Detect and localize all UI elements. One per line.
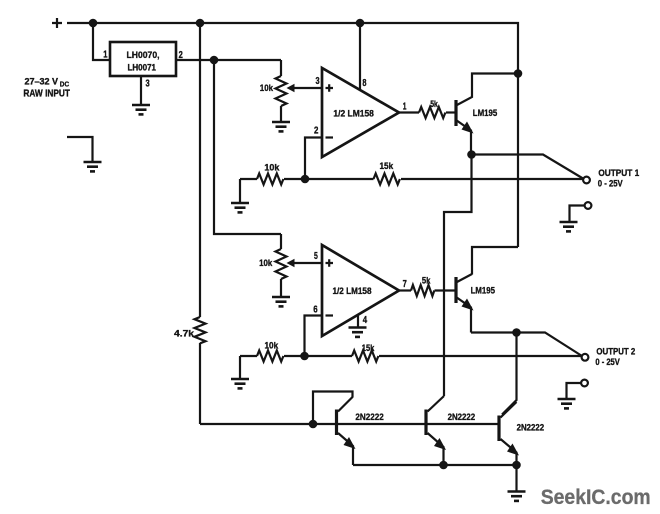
junction row1 inverting node xyxy=(301,175,310,184)
ground chassis xyxy=(84,162,102,171)
svg-text:1/2 LM158: 1/2 LM158 xyxy=(333,108,374,118)
ground feedback row1 stub xyxy=(239,179,241,203)
resistor R6 15k xyxy=(374,174,400,185)
op-amp U2 minus sign xyxy=(326,136,334,138)
terminal output1 xyxy=(583,177,590,184)
terminal output2 xyxy=(582,354,589,361)
wire Q1 emitter down to mirror (jog) xyxy=(444,155,472,397)
wire 5k to Q1 base xyxy=(446,111,455,113)
wire Q1 emitter to output 1 (horizontal + diagonal) xyxy=(472,155,584,179)
wire left rail upper (to 4.7k) xyxy=(199,23,201,317)
ground emitter rail xyxy=(508,492,526,501)
ground pot R2 xyxy=(272,297,290,306)
svg-text:27–32 V: 27–32 V xyxy=(25,77,59,87)
junction emitter rail / Q5 / ground xyxy=(512,461,521,470)
wire row1 mid xyxy=(284,178,374,180)
op-amp U2 1/2 LM158 triangle xyxy=(322,68,399,157)
transistor Q1 LM195 base bar xyxy=(454,100,457,126)
junction top rail at 4.7k branch xyxy=(196,19,205,28)
junction emitter rail / Q4 xyxy=(439,461,448,470)
transistor Q5 2N2222 base bar xyxy=(497,416,500,442)
transistor Q3 collector xyxy=(338,397,353,412)
transistor Q4 collector xyxy=(428,396,445,412)
junction Q2 emitter node xyxy=(512,328,521,337)
resistor R8 10k xyxy=(257,351,283,362)
transistor Q1 collector xyxy=(456,74,518,106)
wire row2 to output2 xyxy=(379,355,582,357)
svg-text:2N2222: 2N2222 xyxy=(517,423,545,434)
ground pot R1 xyxy=(272,122,290,131)
svg-text:5: 5 xyxy=(314,250,318,262)
wire row2 mid xyxy=(284,355,352,357)
transistor Q5 emitter xyxy=(501,439,517,465)
wire U3 pin4 to ground xyxy=(357,315,359,327)
terminal output2 return xyxy=(581,380,588,387)
svg-text:2N2222: 2N2222 xyxy=(355,412,383,423)
transistor Q2 emitter arrow xyxy=(462,299,474,311)
junction Q1 emitter node xyxy=(467,150,476,159)
wire pin8 from V+ rail xyxy=(359,23,361,89)
transistor Q4 2N2222 base bar xyxy=(424,410,427,436)
svg-text:5k: 5k xyxy=(422,276,431,286)
wire chassis stub xyxy=(67,137,93,162)
junction top rail at input branch xyxy=(89,19,98,28)
wire row2 left xyxy=(240,355,257,357)
svg-text:DC: DC xyxy=(60,80,70,89)
wire Q3 collector-base tie bracket xyxy=(313,392,353,425)
op-amp U3 1/2 LM158 triangle xyxy=(322,245,399,336)
svg-text:10k: 10k xyxy=(264,163,280,173)
wire pin2 branch down to pot R2 xyxy=(214,60,281,234)
terminal output1 return xyxy=(585,202,592,209)
junction top rail at pin8 branch xyxy=(356,19,365,28)
op-amp U3 minus sign xyxy=(326,314,334,316)
op-amp U2 plus sign xyxy=(326,84,334,92)
transistor Q1 emitter arrow xyxy=(462,122,474,134)
wire Q2 emitter to output2 xyxy=(471,333,582,357)
wire R2 wiper to op-amp pin5 xyxy=(293,262,322,264)
ground U3 pin4 xyxy=(349,328,367,337)
junction row2 inverting node xyxy=(300,352,309,361)
svg-text:SeekIC.com: SeekIC.com xyxy=(541,485,651,509)
resistor R4 10k xyxy=(257,174,283,185)
wire pot R2 top lead xyxy=(280,234,282,249)
potentiometer R1 10k body xyxy=(276,76,287,106)
wire U3 output to 5k xyxy=(399,289,411,291)
wire V+ to regulator pin1 xyxy=(93,23,110,60)
svg-text:10k: 10k xyxy=(260,83,274,93)
transistor Q5 collector xyxy=(501,402,517,418)
wire U3 pin6 to row2 node xyxy=(305,316,323,357)
svg-text:3: 3 xyxy=(146,78,151,89)
svg-text:LH0070,: LH0070, xyxy=(127,50,160,61)
wiper arrow R2 xyxy=(287,259,295,267)
junction pin2 wire branch down xyxy=(210,56,219,65)
wire output1 return to ground xyxy=(570,206,585,222)
svg-text:RAW INPUT: RAW INPUT xyxy=(23,89,70,100)
svg-text:1/2 LM158: 1/2 LM158 xyxy=(333,286,372,296)
resistor R9 15k xyxy=(352,351,378,362)
svg-text:OUTPUT 1: OUTPUT 1 xyxy=(598,167,639,178)
wire top V+ rail xyxy=(67,23,518,247)
svg-text:LM195: LM195 xyxy=(473,108,497,118)
wire regulator pin3 down xyxy=(140,76,142,105)
svg-text:3: 3 xyxy=(316,75,320,87)
wire row1 to output1 xyxy=(401,178,583,180)
ground feedback row2 xyxy=(231,379,249,388)
svg-text:1: 1 xyxy=(103,50,108,61)
wiper arrow R1 xyxy=(287,84,295,92)
junction base rail / Q3 collector tie xyxy=(309,420,318,429)
svg-text:7: 7 xyxy=(403,278,407,290)
resistor R5 4.7k xyxy=(195,317,206,343)
transistor Q3 2N2222 base bar xyxy=(335,410,338,436)
wire emitter rail to ground xyxy=(515,465,517,491)
transistor Q2 LM195 base bar xyxy=(454,277,457,303)
ground output2 return xyxy=(558,399,576,408)
transistor Q3 emitter arrow xyxy=(344,437,356,449)
svg-text:6: 6 xyxy=(313,304,318,316)
svg-text:0 - 25V: 0 - 25V xyxy=(595,357,620,367)
wire Q2 emitter node down to Q5 collector xyxy=(502,333,517,415)
resistor R3 5k xyxy=(419,107,445,118)
ground feedback row2 stub xyxy=(239,356,241,379)
svg-text:10k: 10k xyxy=(265,341,280,351)
potentiometer R1 bottom lead xyxy=(280,106,282,122)
svg-text:5k: 5k xyxy=(430,99,438,109)
transistor Q2 collector xyxy=(456,274,472,283)
wire output2 return to ground xyxy=(567,383,582,399)
transistor Q4 emitter arrow xyxy=(434,438,446,450)
op-amp U3 plus sign xyxy=(326,259,334,267)
svg-text:LM195: LM195 xyxy=(471,286,495,296)
svg-text:2: 2 xyxy=(314,125,319,137)
transistor Q1 emitter xyxy=(456,120,471,155)
node V+ plus sign xyxy=(52,18,62,28)
potentiometer R2 bottom lead xyxy=(280,279,282,297)
wire regulator pin2 to pot R1 xyxy=(176,59,281,61)
svg-text:15k: 15k xyxy=(380,161,395,171)
wire emitter rail xyxy=(353,464,517,466)
ground regulator pin3 xyxy=(132,105,150,114)
transistor Q5 emitter arrow xyxy=(507,444,519,456)
svg-text:2N2222: 2N2222 xyxy=(448,412,476,423)
svg-text:10k: 10k xyxy=(259,258,273,268)
svg-text:4.7k: 4.7k xyxy=(174,329,195,339)
resistor R7 5k xyxy=(411,285,434,296)
wire U2 output to 5k xyxy=(399,111,419,113)
svg-text:0 - 25V: 0 - 25V xyxy=(598,179,624,189)
wire 5k to Q2 base xyxy=(435,289,455,291)
potentiometer R2 10k body xyxy=(276,249,287,279)
svg-text:OUTPUT 2: OUTPUT 2 xyxy=(596,345,635,356)
svg-text:15k: 15k xyxy=(362,343,375,353)
wire R1 wiper to op-amp pin3 xyxy=(293,87,322,89)
svg-text:1: 1 xyxy=(403,100,407,112)
transistor Q4 emitter xyxy=(428,433,444,465)
wire bottom base rail xyxy=(200,423,499,425)
wire row1 left xyxy=(240,178,257,180)
potentiometer R1 10k top lead xyxy=(280,60,282,76)
junction V+ rail / Q1 collector xyxy=(514,69,523,78)
wire left rail lower (4.7k to bottom rail) xyxy=(199,343,201,424)
svg-text:LH0071: LH0071 xyxy=(128,63,157,74)
wire V+ rail jog to Q2 collector xyxy=(472,247,518,275)
svg-text:8: 8 xyxy=(362,77,366,89)
wire U2 pin2 to row1 node xyxy=(305,138,322,180)
ground output1 return xyxy=(560,222,578,231)
transistor Q3 emitter xyxy=(338,433,353,465)
transistor Q2 emitter xyxy=(456,297,471,333)
svg-text:4: 4 xyxy=(363,314,368,326)
ground feedback row1 xyxy=(231,203,249,212)
regulator U1 LH0070/LH0071 box xyxy=(110,42,176,76)
